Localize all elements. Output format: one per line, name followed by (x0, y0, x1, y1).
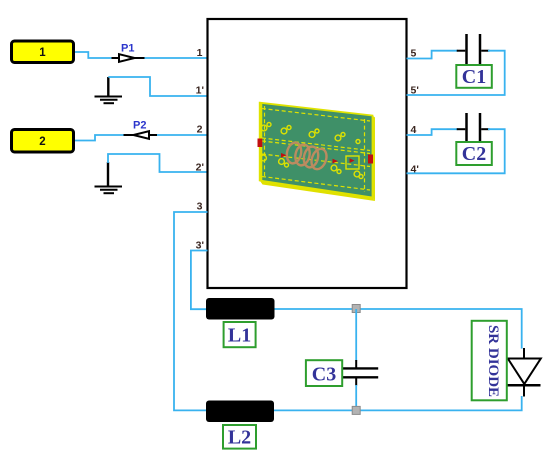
board side faces (373, 116, 376, 202)
svg-text:2': 2' (196, 162, 204, 174)
wire port2 to pin 2 (75, 135, 208, 141)
red arrow mid-right (333, 159, 339, 164)
inductor L1 (206, 298, 275, 320)
wire ground to pin 1' (108, 77, 207, 96)
svg-text:2: 2 (39, 136, 45, 148)
ground (port 2 return) (95, 162, 123, 193)
wire pin 3' down to L1 (191, 251, 208, 310)
top rail L1 to diode (275, 309, 522, 349)
red arrow mid-left (281, 153, 287, 158)
svg-text:P2: P2 (133, 120, 146, 132)
inductor L2 (206, 401, 274, 423)
svg-text:1: 1 (197, 47, 203, 59)
svg-text:P1: P1 (121, 43, 134, 55)
svg-text:L2: L2 (228, 427, 251, 449)
red arrow in component (350, 158, 355, 163)
port 2 (12, 130, 74, 153)
svg-text:3: 3 (197, 201, 203, 213)
C1 label (456, 65, 492, 88)
wire port1 to pin 1 (75, 52, 208, 58)
C3 label (306, 360, 342, 386)
wire junction to C3 (355, 309, 357, 361)
copper coil (285, 141, 329, 171)
ground (port 1 return) (95, 77, 123, 103)
L2 label (223, 425, 256, 449)
wire pin 4 to C2 (407, 129, 459, 135)
pull arrow P2 (124, 120, 158, 139)
PCB image inside box (258, 103, 376, 201)
svg-text:L1: L1 (228, 325, 251, 347)
capacitor C2 (457, 113, 490, 143)
svg-text:C3: C3 (312, 364, 336, 386)
svg-text:SR DIODE: SR DIODE (485, 325, 501, 397)
junction node top (352, 305, 360, 313)
left edge strip (260, 104, 263, 182)
pads (261, 123, 363, 179)
svg-text:1': 1' (196, 85, 204, 97)
dashed traces (262, 106, 370, 192)
bottom rail L2 to diode (274, 396, 522, 410)
capacitor C3 (342, 360, 378, 386)
port 1 (12, 41, 74, 63)
svg-text:C2: C2 (462, 143, 486, 165)
pull arrow P1 (112, 43, 145, 62)
wire pin 3 down to L2 (174, 212, 208, 410)
capacitor C1 (457, 34, 490, 64)
svg-text:2: 2 (197, 124, 203, 136)
red connector left (258, 139, 263, 148)
wire ground2 to pin 2' (108, 154, 208, 172)
board top face (260, 103, 373, 198)
wire C1 to pin 5' (407, 51, 505, 95)
svg-text:C1: C1 (462, 66, 486, 88)
svg-text:1: 1 (39, 47, 46, 59)
C2 label (456, 142, 492, 165)
L1 label (224, 322, 256, 347)
wire C3 to bottom junction (355, 385, 357, 410)
wire C2 to pin 4' (407, 129, 505, 173)
SR DIODE label (472, 321, 507, 401)
red connector right (368, 155, 373, 164)
diode D1 (506, 348, 541, 397)
wire pin 5 to C1 (407, 51, 459, 59)
transformer box U1 (208, 19, 407, 288)
junction node bottom (352, 406, 360, 414)
